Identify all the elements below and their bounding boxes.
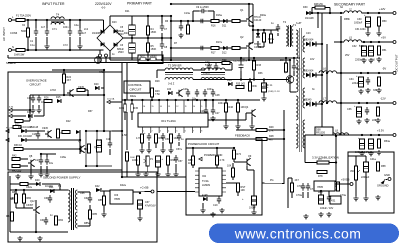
wire [126, 161, 128, 177]
capacitor C49 [186, 89, 190, 97]
wire sec bus a2 [321, 44, 323, 135]
svg-text:250V: 250V [118, 33, 124, 36]
svg-text:FEEDBACK: FEEDBACK [235, 134, 250, 138]
junction [361, 134, 363, 136]
resistor R34 [236, 85, 244, 88]
svg-text:R87: R87 [12, 191, 17, 194]
svg-text:C60: C60 [44, 197, 49, 200]
junction [103, 69, 105, 71]
svg-text:10K: 10K [241, 189, 246, 192]
wire [225, 100, 227, 103]
wire [157, 167, 159, 172]
junction [63, 94, 65, 96]
wire neutral into bridge [92, 49, 104, 51]
svg-text:D11: D11 [222, 25, 227, 28]
svg-text:D83-004: D83-004 [304, 39, 314, 42]
terminal +5V [393, 41, 396, 44]
capacitor C35 [366, 77, 370, 85]
IC TL431 [330, 196, 341, 204]
svg-text:10uF/50V: 10uF/50V [101, 138, 103, 148]
wire [7, 170, 9, 172]
ground [137, 216, 142, 221]
box powergood circuit [186, 139, 262, 215]
inductor L6 [319, 71, 337, 73]
junction [170, 15, 172, 17]
LM339 pins right [222, 171, 226, 192]
svg-text:C62: C62 [84, 197, 89, 200]
svg-text:330: 330 [373, 89, 378, 92]
wire [110, 101, 122, 103]
svg-text:C49: C49 [183, 88, 188, 91]
wire [234, 161, 244, 163]
ground [37, 236, 42, 241]
svg-text:7.5K: 7.5K [155, 93, 160, 96]
wire [270, 30, 272, 34]
resistor R70 [191, 156, 194, 165]
capacitor C12 series [198, 46, 206, 50]
wire [251, 116, 253, 124]
junction [340, 102, 342, 104]
wire [20, 158, 28, 160]
wire [277, 24, 279, 26]
wire main divider [8, 62, 232, 64]
junction [358, 102, 360, 104]
junction [27, 19, 29, 21]
wire [103, 95, 105, 131]
wire [311, 8, 313, 14]
wire [365, 156, 367, 162]
wire [233, 148, 235, 150]
watermark bar [209, 224, 399, 244]
wire [161, 51, 163, 60]
svg-text:IO3: IO3 [114, 193, 119, 197]
svg-text:3+3 Z: 3+3 Z [168, 83, 175, 86]
resistor R48b [256, 137, 267, 140]
wire [89, 192, 91, 195]
svg-text:7805: 7805 [317, 185, 323, 189]
resistor R58 [376, 162, 379, 171]
svg-text:9: 9 [201, 106, 202, 108]
capacitor C26 [204, 107, 208, 115]
junction [46, 19, 48, 21]
junction [170, 37, 172, 39]
wire [23, 120, 30, 122]
wire [295, 44, 297, 58]
junction [329, 12, 331, 14]
junction [249, 78, 251, 80]
diode D42 [96, 188, 101, 192]
resistor R26 [44, 99, 52, 102]
LM339 pins left [195, 171, 199, 192]
ground [210, 116, 215, 121]
wire [147, 35, 149, 43]
svg-text:7: 7 [193, 131, 194, 133]
junction [321, 103, 323, 105]
wire [147, 16, 149, 26]
junction [253, 78, 255, 80]
wire [36, 199, 50, 201]
transformer T1 secondary w3 [303, 88, 305, 108]
junction [161, 59, 163, 61]
wire [180, 21, 182, 23]
svg-text:R51: R51 [382, 49, 387, 52]
svg-text:D24: D24 [124, 32, 129, 35]
resistor R41b [62, 130, 70, 133]
wire sel down b [105, 57, 107, 63]
svg-text:100n: 100n [218, 102, 224, 105]
resistor R50 [377, 17, 380, 26]
wire [284, 109, 300, 111]
wire [103, 70, 105, 95]
wire [30, 166, 32, 174]
junction [87, 94, 89, 96]
ground [143, 172, 148, 177]
wire inner vertical lower [126, 112, 128, 150]
svg-text:10V: 10V [310, 58, 315, 61]
wire [162, 142, 164, 148]
junction [29, 109, 31, 111]
wire [16, 207, 33, 209]
svg-text:Q12: Q12 [30, 200, 35, 203]
diode D25 [101, 43, 105, 47]
junction [96, 130, 98, 132]
ground [36, 108, 41, 113]
wire [247, 169, 254, 171]
resistor R81 [14, 194, 17, 203]
svg-text:5T+5T: 5T+5T [203, 72, 211, 75]
svg-text:T3 DRIVER: T3 DRIVER [168, 64, 182, 68]
wire shield stub [7, 55, 9, 58]
svg-text:D42: D42 [95, 185, 100, 188]
capacitor C39 [368, 139, 373, 149]
wire T2 to T1 [293, 29, 296, 31]
wire [328, 191, 330, 197]
svg-text:C945: C945 [78, 86, 84, 89]
capacitor C63 [137, 200, 142, 209]
ground [368, 151, 373, 156]
junction [240, 78, 242, 80]
wire [87, 90, 89, 95]
capacitor C2 4n7 [45, 28, 49, 36]
junction [370, 134, 372, 136]
transistor Q9 [244, 158, 251, 166]
svg-text:VR2: VR2 [350, 170, 355, 173]
wire [192, 165, 194, 168]
capacitor C11 1u [276, 24, 280, 32]
diode D29 [21, 129, 26, 133]
wire [155, 143, 157, 148]
resistor R43t [150, 88, 153, 97]
svg-text:10u: 10u [49, 162, 54, 165]
diode D16 [28, 114, 32, 118]
svg-text:0.1u: 0.1u [30, 44, 35, 47]
junction [321, 134, 323, 136]
wire [20, 165, 28, 167]
wire [26, 139, 80, 141]
svg-text:R42: R42 [12, 155, 17, 158]
wire [46, 37, 48, 44]
svg-text:C62a: C62a [26, 186, 32, 189]
resistor R25 [77, 88, 85, 91]
svg-text:R54a: R54a [384, 140, 390, 143]
svg-text:1U 0.5A: 1U 0.5A [107, 97, 115, 100]
svg-text:D83-004: D83-004 [304, 70, 314, 73]
resistor R46 [224, 103, 227, 112]
diode D20 [95, 86, 99, 90]
transistor Q4 [249, 109, 256, 117]
svg-text:C57a: C57a [176, 148, 182, 151]
resistor R31 [150, 58, 156, 60]
wire [124, 100, 126, 104]
wire [325, 7, 330, 9]
junction [311, 12, 313, 14]
wire [42, 183, 60, 185]
resistor R73 [231, 168, 234, 177]
wire [305, 162, 317, 164]
wire -5V rail right [337, 72, 393, 74]
wire [147, 166, 149, 172]
wire [89, 205, 91, 210]
wire [246, 165, 248, 170]
junction [335, 161, 337, 163]
wire spsu left rail [9, 176, 11, 232]
svg-text:3.3V: 3.3V [9, 106, 14, 108]
svg-text:1000uF: 1000uF [354, 22, 363, 25]
wire [329, 162, 336, 164]
svg-text:R35 1K5: R35 1K5 [236, 84, 246, 86]
junction [326, 72, 328, 74]
wire [59, 184, 61, 190]
capacitor C60 [48, 195, 52, 203]
capacitor C19 [217, 196, 221, 204]
wire [267, 138, 284, 140]
wire primary main upper [123, 20, 171, 22]
wire [124, 112, 126, 120]
wire Q2 collector [249, 42, 253, 44]
svg-text:D21: D21 [125, 10, 130, 13]
terminal GND [388, 178, 391, 181]
transistor Q1 [246, 15, 253, 23]
ground [155, 172, 160, 177]
wire [74, 92, 77, 94]
wire [35, 213, 37, 232]
wire to control box [112, 130, 122, 132]
svg-text:R58b: R58b [344, 18, 350, 21]
svg-text:CY2: CY2 [63, 44, 68, 47]
capacitor C51 [177, 133, 181, 141]
ground [28, 174, 33, 179]
svg-text:4n7: 4n7 [41, 26, 46, 29]
svg-text:CY1: CY1 [52, 28, 57, 31]
wire [249, 25, 253, 27]
svg-text:R84: R84 [59, 219, 64, 222]
svg-text:2200uF: 2200uF [361, 176, 370, 179]
resistor R28 [13, 125, 21, 128]
resistor R4 [146, 26, 149, 35]
capacitor C4 [78, 28, 82, 36]
junction [366, 102, 368, 104]
junction [35, 49, 37, 51]
wire t5 right [225, 69, 232, 71]
stub remote [6, 138, 9, 141]
junction [360, 72, 362, 74]
wire live into bridge [92, 19, 104, 21]
svg-text:C4a: C4a [74, 24, 79, 27]
wire primary top bus [171, 3, 253, 5]
wire [205, 100, 207, 107]
junction [79, 19, 81, 21]
transformer T1 secondary w5 [303, 120, 305, 148]
junction [212, 99, 214, 101]
diode D15 [57, 99, 61, 103]
resistor R43 [12, 164, 20, 167]
svg-text:C4140: C4140 [254, 19, 262, 22]
wire [237, 100, 239, 103]
wire pg top [186, 147, 234, 149]
wire AC neutral bottom [12, 49, 93, 51]
svg-text:11: 11 [185, 106, 187, 108]
wire +5VSB out [133, 191, 151, 194]
junction [175, 99, 177, 101]
svg-text:R17a: R17a [216, 41, 222, 44]
terminal +5VSB a [151, 190, 154, 193]
ground R50 [376, 31, 381, 36]
wire half bridge vertical [252, 4, 254, 43]
IC IO3 7805 [110, 190, 133, 204]
svg-text:1N4148: 1N4148 [305, 17, 314, 20]
junction [370, 41, 372, 43]
resistor R53 [376, 107, 379, 116]
resistor R67 [125, 152, 128, 161]
transformer T1 secondary w2 [303, 58, 305, 78]
resistor R17 [211, 46, 219, 49]
svg-text:IO2: IO2 [202, 175, 207, 178]
capacitor C70 [301, 183, 305, 191]
ground [200, 208, 205, 213]
junction [283, 138, 285, 140]
ground [15, 174, 20, 179]
svg-text:1N4148: 1N4148 [30, 127, 39, 129]
junction [367, 12, 369, 14]
junction [187, 20, 189, 22]
capacitor C22 [292, 63, 296, 71]
wire [29, 116, 31, 121]
junction [192, 147, 194, 149]
wire +5V rail left [322, 41, 344, 43]
wire [79, 131, 81, 154]
svg-text:47uF/16V: 47uF/16V [145, 205, 156, 208]
wire [137, 165, 139, 172]
wire sel down [99, 57, 101, 63]
capacitor C18 [45, 157, 49, 165]
wire [79, 20, 81, 28]
wire [151, 97, 153, 100]
svg-text:R32: R32 [222, 59, 227, 62]
wire ov mid [30, 94, 104, 96]
rectifier box FR150S [315, 127, 333, 135]
svg-text:R50: R50 [382, 20, 387, 23]
gnd arrow [381, 180, 386, 184]
junction [326, 102, 328, 104]
junction [196, 99, 198, 101]
capacitor C46 [195, 89, 199, 97]
junction [103, 130, 105, 132]
svg-text:PS-ON: PS-ON [6, 127, 13, 129]
capacitor C56 [155, 156, 160, 167]
svg-text:1M/0.5W: 1M/0.5W [14, 53, 25, 57]
junction [35, 19, 37, 21]
resistor R42 [12, 157, 20, 160]
svg-text:D41: D41 [49, 186, 54, 189]
svg-text:+12V: +12V [379, 7, 386, 11]
svg-text:560K: 560K [21, 30, 27, 33]
wire [187, 21, 189, 25]
junction [216, 147, 218, 149]
wire [237, 192, 239, 196]
ground [358, 89, 363, 94]
wire bridge plus out [123, 37, 132, 39]
wire [102, 190, 110, 192]
resistor R20 [262, 33, 265, 42]
capacitor C25 [239, 62, 244, 70]
wire [285, 58, 287, 63]
svg-text:R20a: R20a [260, 14, 266, 17]
svg-text:D16: D16 [27, 111, 32, 114]
junction [170, 20, 172, 22]
resistor R82 [22, 194, 25, 203]
svg-text:5T+5T: 5T+5T [205, 64, 213, 67]
svg-text:R37: R37 [88, 110, 93, 113]
junction [79, 148, 81, 150]
wire [365, 172, 367, 196]
fuse F1 [16, 18, 25, 21]
ground [223, 124, 228, 129]
svg-text:TC3A: TC3A [202, 179, 209, 183]
TL494 pins bottom [143, 127, 201, 133]
capacitor C36 [356, 107, 361, 117]
svg-text:R81: R81 [10, 197, 15, 200]
svg-text:C23: C23 [306, 32, 311, 35]
wire Q2 emitter down [248, 53, 250, 60]
wire [233, 159, 235, 162]
wire AC live top [12, 19, 93, 21]
ground C4 [77, 44, 82, 49]
wire [103, 205, 105, 212]
resistor R19 [232, 19, 240, 22]
svg-text:220: 220 [372, 119, 377, 122]
capacitor C58 [251, 196, 256, 205]
resistor R23 [186, 25, 189, 34]
capacitor C61 [44, 217, 48, 225]
svg-text:3: 3 [160, 131, 161, 133]
svg-text:12: 12 [176, 106, 178, 108]
svg-text:220V/110V: 220V/110V [95, 2, 112, 6]
svg-text:www.cntronics.com: www.cntronics.com [234, 226, 362, 242]
wire [131, 16, 133, 25]
junction [240, 57, 242, 59]
wire [101, 189, 110, 191]
wire [289, 60, 291, 92]
transistor Q5 [67, 89, 74, 97]
svg-text:C41a: C41a [370, 158, 376, 161]
wire [139, 209, 141, 216]
wire [192, 148, 194, 156]
transistor Q10 [33, 206, 40, 214]
svg-text:R16: R16 [211, 25, 216, 28]
svg-text:R72: R72 [237, 153, 242, 156]
wire [293, 58, 295, 63]
ground [38, 172, 43, 177]
